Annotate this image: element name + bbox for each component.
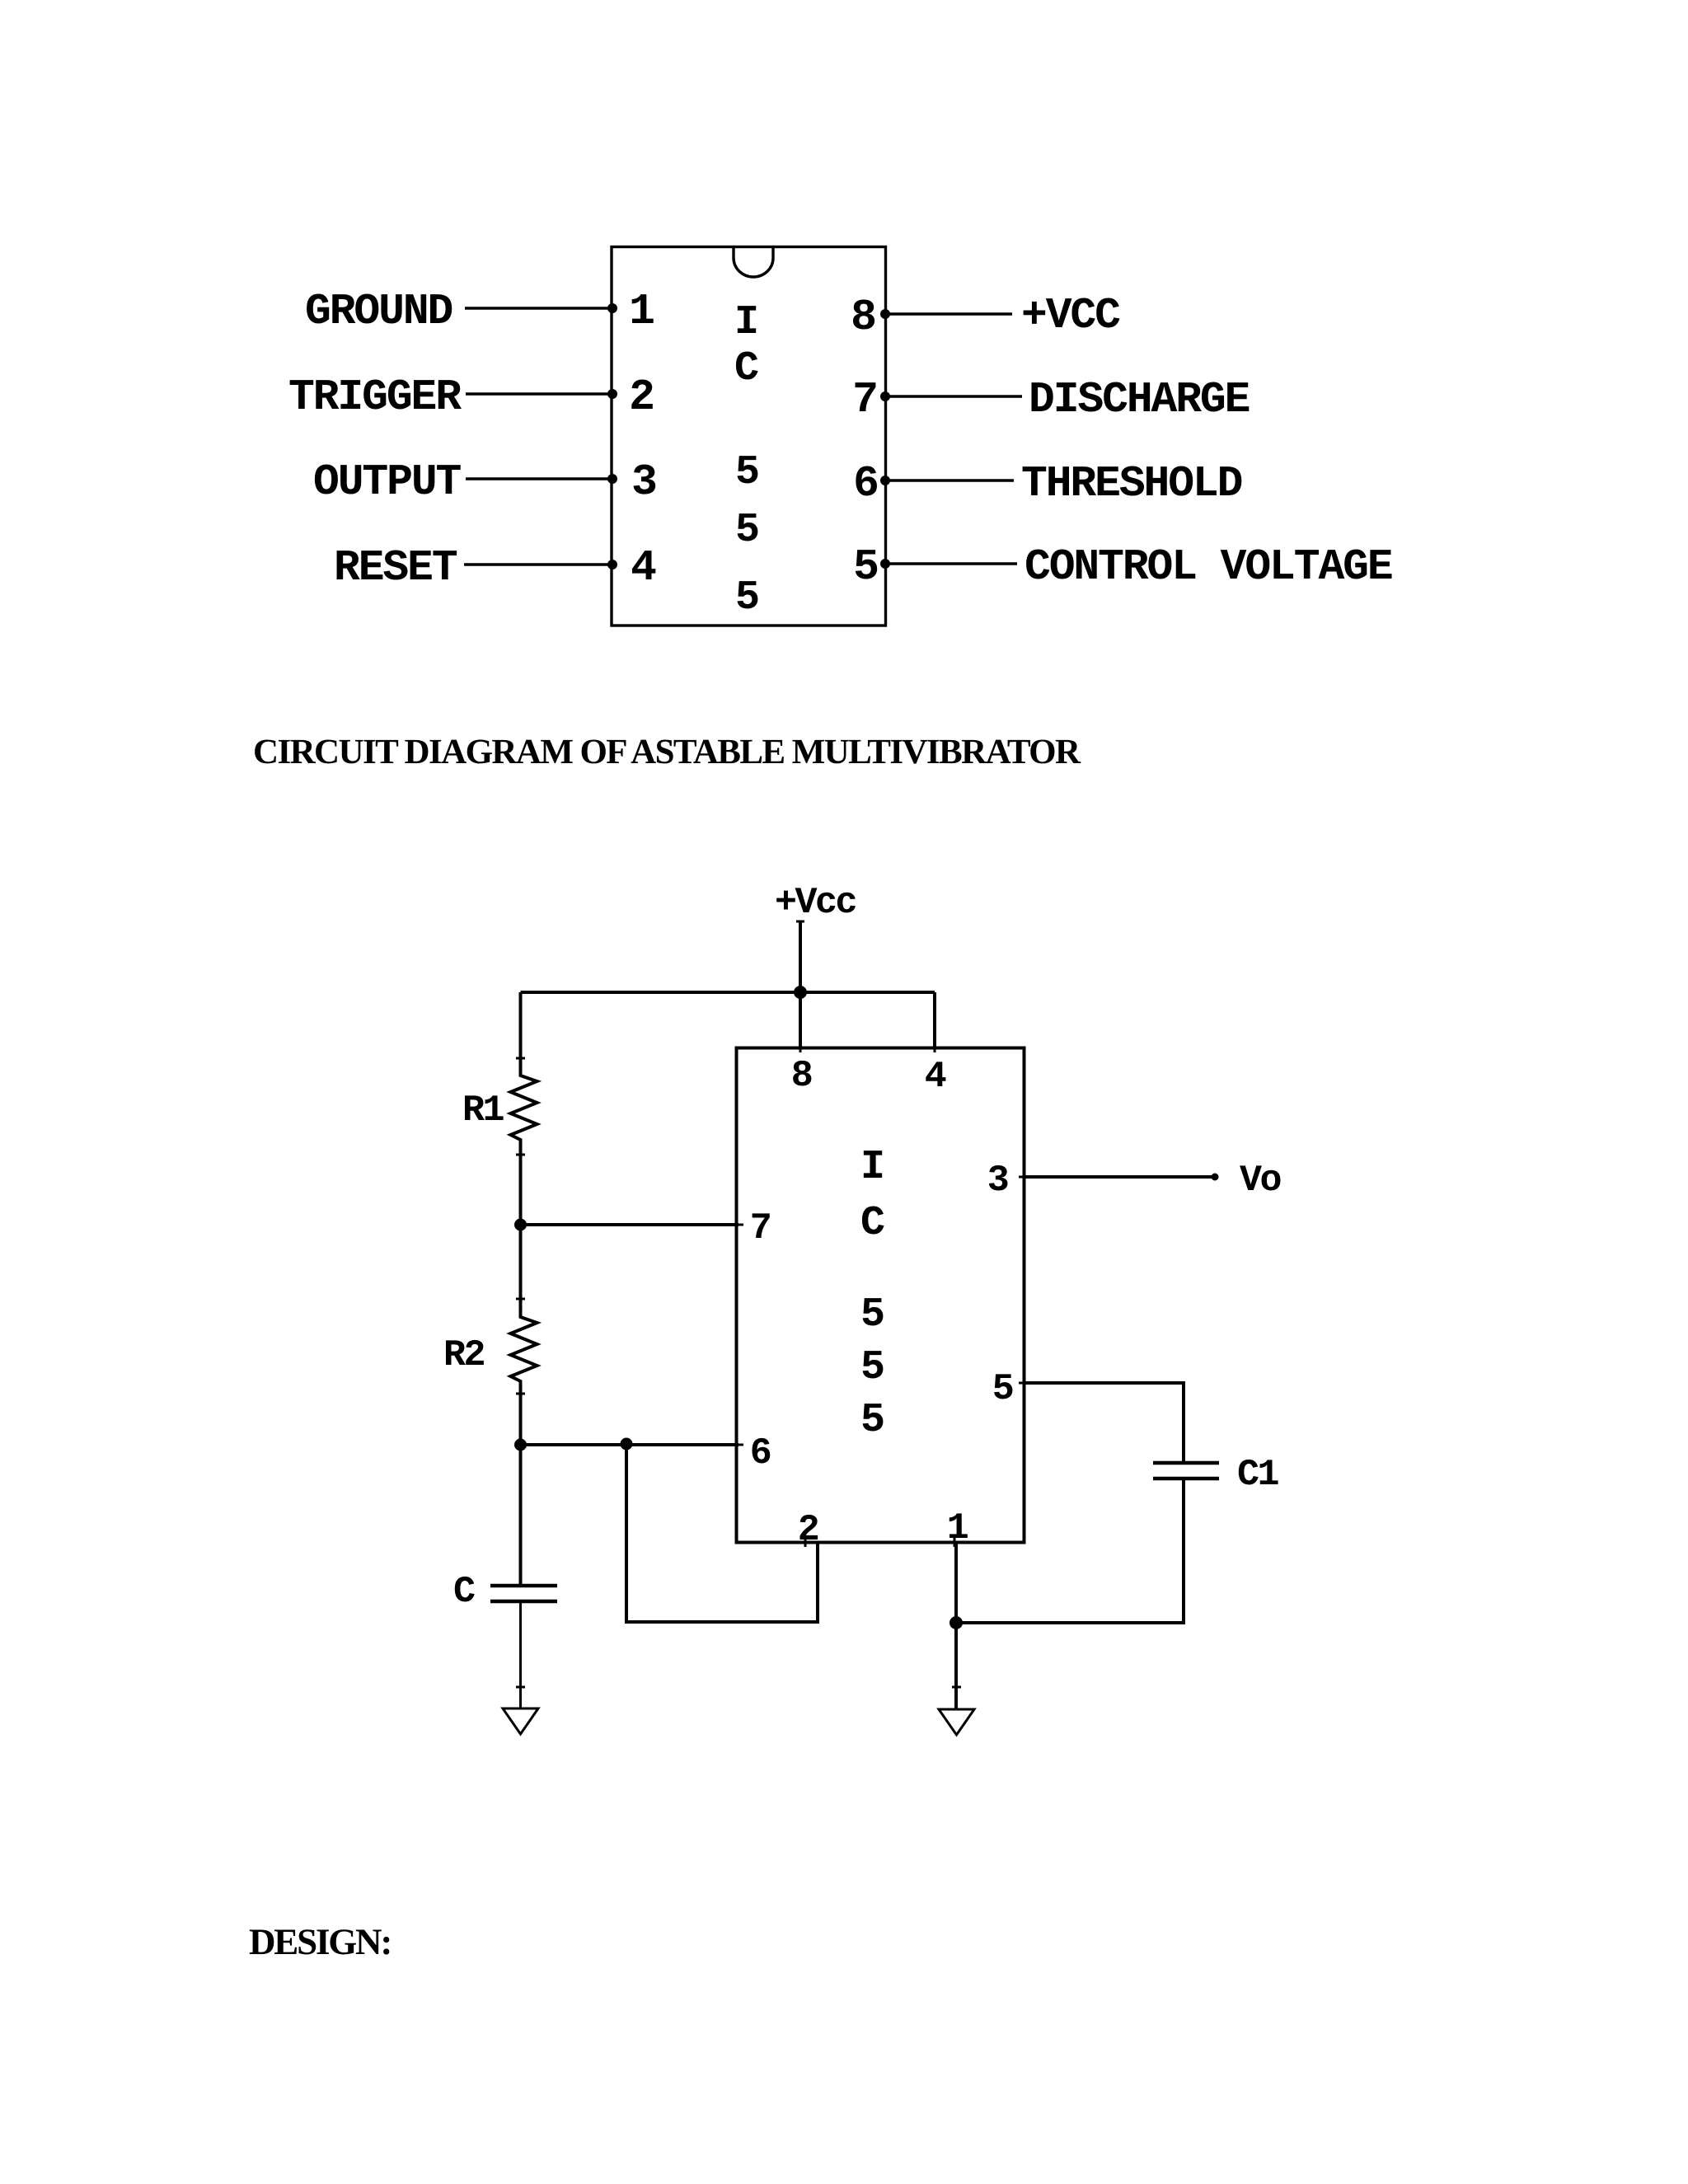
svg-text:+Vcc: +Vcc xyxy=(775,882,856,924)
svg-text:5: 5 xyxy=(853,542,878,592)
svg-text:C: C xyxy=(453,1571,475,1613)
wire pin3 output xyxy=(1024,1175,1215,1179)
svg-text:R2: R2 xyxy=(443,1334,485,1376)
svg-text:2: 2 xyxy=(798,1509,818,1551)
capacitor C bottom plate xyxy=(490,1600,557,1604)
node pin1 xyxy=(607,303,617,313)
junction node Vcc rail xyxy=(794,986,807,999)
wire left rail top segment to R1 xyxy=(519,992,523,1058)
node pin8 xyxy=(880,309,890,319)
svg-text:5: 5 xyxy=(735,507,760,554)
node pin2 xyxy=(607,389,617,399)
svg-text:CIRCUIT DIAGRAM OF ASTABLE MUL: CIRCUIT DIAGRAM OF ASTABLE MULTIVIBRATOR xyxy=(253,733,1081,771)
wire C1 down and left to node G xyxy=(956,1480,1184,1623)
wire node A to R2 xyxy=(519,1225,523,1299)
junction node A (R1/R2/pin7) xyxy=(514,1219,527,1231)
svg-text:GROUND: GROUND xyxy=(305,287,452,336)
junction node B2 (pin2 branch) xyxy=(621,1438,633,1451)
wire R1 to node A xyxy=(519,1155,523,1225)
svg-text:DESIGN:: DESIGN: xyxy=(249,1921,391,1962)
pin terminal tick R2 bottom xyxy=(516,1393,525,1395)
IC U1 package body xyxy=(612,247,886,626)
junction node G (pin1/C1 ground) xyxy=(949,1616,963,1629)
wire C bottom to ground xyxy=(519,1601,522,1708)
wire pin6 THRESHOLD xyxy=(886,479,1015,481)
pin terminal tick R1 bottom xyxy=(516,1154,525,1156)
pin terminal tick pin8 top edge xyxy=(799,1043,802,1052)
svg-text:C1: C1 xyxy=(1237,1454,1279,1496)
svg-text:7: 7 xyxy=(750,1207,771,1249)
wire pin2 loop to node B branch xyxy=(626,1445,818,1622)
svg-text:RESET: RESET xyxy=(334,543,457,593)
junction node B (R2/C/pin6) xyxy=(514,1439,527,1451)
wire node B down to capacitor C xyxy=(519,1445,523,1585)
wire pin2 TRIGGER xyxy=(466,392,612,395)
node pin7 xyxy=(880,391,890,401)
node pin4 xyxy=(607,560,617,569)
svg-text:5: 5 xyxy=(735,449,760,496)
wire pin1 stub down to ground xyxy=(954,1542,958,1709)
wire pin1 GROUND xyxy=(465,307,612,309)
resistor R2 body xyxy=(511,1299,537,1394)
pin terminal tick +Vcc xyxy=(796,921,804,923)
pin terminal tick pin6 left edge xyxy=(734,1444,743,1446)
pin terminal tick pin1 bottom edge xyxy=(954,1537,956,1547)
svg-text:2: 2 xyxy=(629,373,654,422)
svg-text:5: 5 xyxy=(860,1344,885,1391)
pin terminal tick pin5 right edge xyxy=(1019,1382,1029,1385)
svg-text:CONTROL VOLTAGE: CONTROL VOLTAGE xyxy=(1025,542,1392,592)
node pin5 xyxy=(880,559,890,569)
pin terminal tick pin4 top edge xyxy=(934,1043,936,1052)
svg-text:6: 6 xyxy=(750,1432,771,1474)
svg-text:R1: R1 xyxy=(462,1090,504,1132)
terminal dot Vo xyxy=(1212,1174,1219,1181)
wire pin4 RESET xyxy=(464,563,612,565)
svg-text:7: 7 xyxy=(852,375,877,424)
wire pin7 DISCHARGE xyxy=(886,395,1023,397)
svg-text:C: C xyxy=(860,1200,885,1247)
svg-text:5: 5 xyxy=(860,1397,885,1444)
wire pin4 corner from rail xyxy=(933,992,936,1047)
svg-text:C: C xyxy=(734,345,759,392)
svg-text:5: 5 xyxy=(735,574,760,621)
capacitor C top plate xyxy=(490,1584,557,1588)
pin terminal tick R1 top xyxy=(516,1057,525,1060)
svg-text:4: 4 xyxy=(631,543,656,593)
svg-text:5: 5 xyxy=(860,1291,885,1338)
wire pin5 CONTROL VOLTAGE xyxy=(886,562,1018,565)
ground symbol left xyxy=(503,1708,538,1734)
wire pin5 to C1 xyxy=(1024,1383,1184,1461)
pin terminal tick ground left xyxy=(516,1686,525,1689)
svg-text:3: 3 xyxy=(987,1160,1008,1202)
pin terminal tick pin7 left edge xyxy=(734,1224,743,1226)
svg-text:+VCC: +VCC xyxy=(1021,291,1120,340)
wire pin7 horizontal xyxy=(521,1223,739,1226)
wire +Vcc drop to rail and pin 8 xyxy=(799,921,802,1047)
svg-text:1: 1 xyxy=(947,1507,968,1549)
svg-text:3: 3 xyxy=(631,457,656,507)
svg-text:1: 1 xyxy=(629,287,654,336)
svg-text:DISCHARGE: DISCHARGE xyxy=(1029,375,1250,424)
capacitor C1 top plate xyxy=(1153,1461,1219,1465)
pin terminal tick ground right xyxy=(952,1686,961,1689)
node pin6 xyxy=(880,476,890,485)
ground symbol right xyxy=(939,1709,974,1735)
svg-text:OUTPUT: OUTPUT xyxy=(313,457,462,507)
resistor R1 body xyxy=(511,1058,537,1155)
svg-text:I: I xyxy=(734,299,759,346)
svg-text:TRIGGER: TRIGGER xyxy=(288,373,462,422)
svg-text:6: 6 xyxy=(853,459,878,509)
wire pin8 +VCC xyxy=(886,312,1013,315)
svg-text:I: I xyxy=(860,1144,885,1191)
capacitor C1 bottom plate xyxy=(1153,1477,1219,1481)
wire top supply rail xyxy=(521,991,935,994)
wire R2 to node B xyxy=(519,1394,523,1445)
notch (pin-1 index) xyxy=(734,248,773,277)
svg-text:THRESHOLD: THRESHOLD xyxy=(1021,459,1242,509)
svg-text:5: 5 xyxy=(992,1368,1013,1410)
pin terminal tick pin3 right edge xyxy=(1019,1176,1029,1179)
pin terminal tick R2 top xyxy=(516,1298,525,1301)
node pin3 xyxy=(607,474,617,484)
svg-text:4: 4 xyxy=(925,1056,946,1098)
svg-text:8: 8 xyxy=(851,293,875,342)
wire pin6 horizontal xyxy=(521,1443,739,1446)
pin terminal tick pin2 bottom edge xyxy=(804,1537,807,1547)
svg-text:Vo: Vo xyxy=(1240,1160,1281,1202)
wire pin3 OUTPUT xyxy=(466,477,612,480)
IC U2 555 body xyxy=(737,1048,1025,1543)
svg-text:8: 8 xyxy=(791,1055,812,1097)
